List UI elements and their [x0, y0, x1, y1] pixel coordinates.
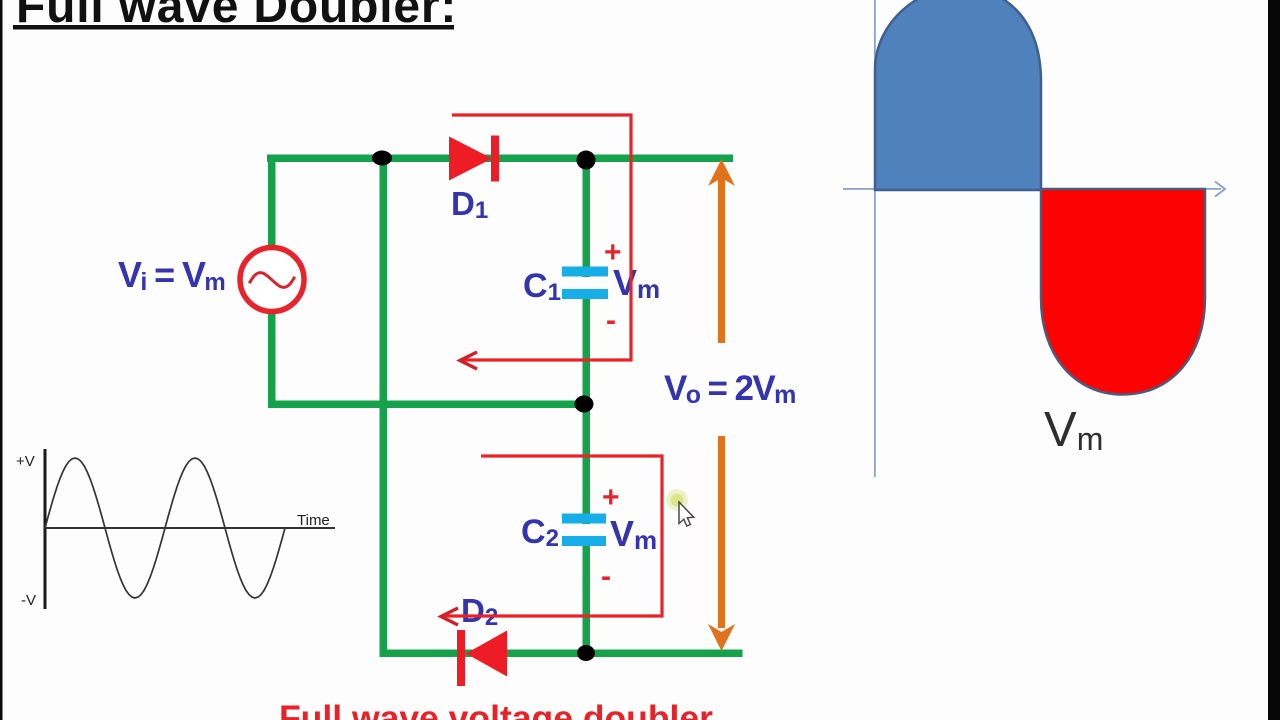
node dot B (diode output) — [577, 151, 596, 170]
capacitor C1 — [561, 267, 608, 300]
right frame bar — [1268, 0, 1280, 720]
input sine plot axis horizontal — [45, 527, 335, 529]
output positive half-cycle (blue) — [875, 0, 1041, 190]
output waveform vertical axis — [874, 0, 876, 477]
node dot C (middle rail) — [575, 396, 594, 413]
wire: middle rail — [268, 401, 586, 409]
wire: capacitor branch vertical — [583, 155, 591, 657]
output waveform horizontal axis — [843, 188, 1221, 190]
diode D1 — [449, 136, 499, 182]
orange arrow Vo lower — [708, 436, 735, 651]
wire: left vertical — [268, 155, 276, 408]
svg-text:+V: +V — [16, 453, 35, 470]
capacitor C2 — [561, 514, 606, 547]
wire: top rail — [267, 155, 733, 163]
pointer highlight glow — [666, 489, 688, 511]
node dot A (input top) — [372, 151, 392, 166]
svg-text:-: - — [601, 560, 611, 593]
mouse cursor — [679, 502, 694, 526]
svg-text:Full wave voltage doubler: Full wave voltage doubler — [279, 698, 713, 720]
output negative half-cycle (red) — [1041, 189, 1205, 395]
red loop 2 arrowhead — [441, 608, 458, 625]
svg-text:-: - — [606, 304, 616, 337]
svg-text:+: + — [602, 481, 620, 514]
node dot D (bottom rail) — [577, 645, 595, 661]
AC source V1 — [240, 248, 304, 312]
output waveform axis arrowhead — [1215, 182, 1225, 197]
input sine waveform — [45, 458, 285, 598]
red loop 1 arrowhead — [460, 352, 477, 369]
left frame edge — [0, 0, 3, 720]
orange arrow Vo upper — [708, 159, 735, 343]
input sine plot axis vertical — [44, 449, 47, 609]
svg-text:Time: Time — [297, 512, 330, 529]
wire: bottom rail — [380, 650, 743, 658]
red loop 1 — [452, 115, 631, 360]
title underline — [13, 25, 454, 30]
diode D2 — [457, 630, 507, 686]
red loop 2 — [443, 456, 662, 616]
wire: input branch vertical — [380, 155, 388, 657]
svg-text:-V: -V — [21, 592, 36, 609]
